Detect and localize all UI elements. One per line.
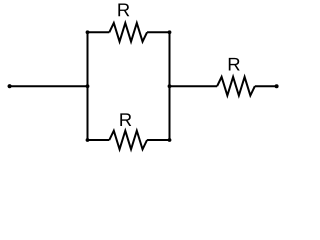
bottom-left corner junction dot <box>86 138 90 142</box>
label R of bottom resistor <box>120 113 131 126</box>
wire: top rail left lead <box>88 31 110 33</box>
label R of top resistor <box>118 4 129 17</box>
wire: top rail right lead <box>147 31 169 33</box>
right terminal node <box>275 84 279 88</box>
wire: node A up to top-left corner <box>87 32 89 86</box>
wire: left terminal to node A <box>10 85 88 87</box>
top-right corner junction dot <box>168 30 172 34</box>
top-left corner junction dot <box>86 30 90 34</box>
resistor R (series, right) <box>217 77 255 96</box>
wire: bottom rail right lead <box>147 139 169 141</box>
wire: bottom rail left lead <box>88 139 110 141</box>
resistor R (bottom parallel branch) <box>109 131 147 150</box>
node A junction dot (left side of parallel pair) <box>86 84 90 88</box>
label R of series resistor <box>229 58 240 71</box>
node B junction dot (right side of parallel pair) <box>168 84 172 88</box>
bottom-right corner junction dot <box>168 138 172 142</box>
wire: node B to series resistor <box>170 85 218 87</box>
wire: series resistor to right terminal <box>255 85 277 87</box>
left terminal node <box>8 84 12 88</box>
wire: top-right corner down to node B <box>169 32 171 86</box>
wire: node B down to bottom-right corner <box>169 86 171 140</box>
wire: node A down to bottom-left corner <box>87 86 89 140</box>
resistor R (top parallel branch) <box>109 23 147 42</box>
